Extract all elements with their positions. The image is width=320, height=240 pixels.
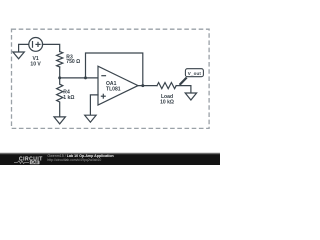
- label V1: [30, 56, 41, 67]
- V_out probe flag: [180, 78, 187, 85]
- wire non-inverting input to ground: [90, 95, 98, 115]
- op-amp OA1 triangle: [98, 66, 138, 105]
- ground (output): [185, 93, 196, 100]
- wire node to op-amp inverting input: [60, 77, 98, 79]
- resistor R3: [57, 52, 63, 67]
- logo waveform: [14, 161, 29, 164]
- op-amp minus mark: [102, 75, 106, 77]
- ground (below R4): [54, 117, 65, 124]
- wire V1 left terminal to ground stem: [19, 44, 30, 52]
- resistor R4: [57, 78, 63, 117]
- svg-text:750 Ω: 750 Ω: [66, 59, 80, 65]
- wire load to ground elbow: [176, 86, 191, 93]
- resistor Load (horizontal): [157, 83, 176, 89]
- svg-text:LAB: LAB: [31, 161, 38, 165]
- ground (op-amp + input): [85, 115, 96, 122]
- label R3 750 Ω: [66, 55, 80, 65]
- feedback wire output to inverting input: [86, 53, 143, 86]
- wire R3 bottom to node: [59, 67, 61, 78]
- junction node output: [141, 84, 144, 87]
- ground (left of V1): [13, 52, 24, 59]
- svg-text:1 kΩ: 1 kΩ: [63, 95, 74, 101]
- svg-text:V_out: V_out: [188, 71, 202, 76]
- footer bar: [0, 152, 220, 154]
- dashed selection border: [12, 29, 210, 128]
- junction node R3/R4: [58, 76, 61, 79]
- svg-text:TL081: TL081: [106, 87, 121, 93]
- wire op-amp output to load: [138, 85, 157, 87]
- svg-text:http://circuitlab.com/c/49pq2w: http://circuitlab.com/c/49pq2w/lab10: [47, 158, 101, 162]
- wire V1 right terminal to R3 top: [42, 44, 59, 51]
- label OA1 TL081: [106, 81, 121, 93]
- op-amp plus mark: [101, 95, 105, 97]
- svg-text:10 V: 10 V: [30, 62, 41, 68]
- logo LAB box: [30, 161, 40, 165]
- junction node feedback tap: [84, 76, 87, 79]
- voltage source V1: [29, 38, 43, 52]
- label Load 10 kΩ: [160, 94, 174, 106]
- label R4 1 kΩ: [63, 90, 74, 101]
- svg-text:10 kΩ: 10 kΩ: [160, 100, 174, 106]
